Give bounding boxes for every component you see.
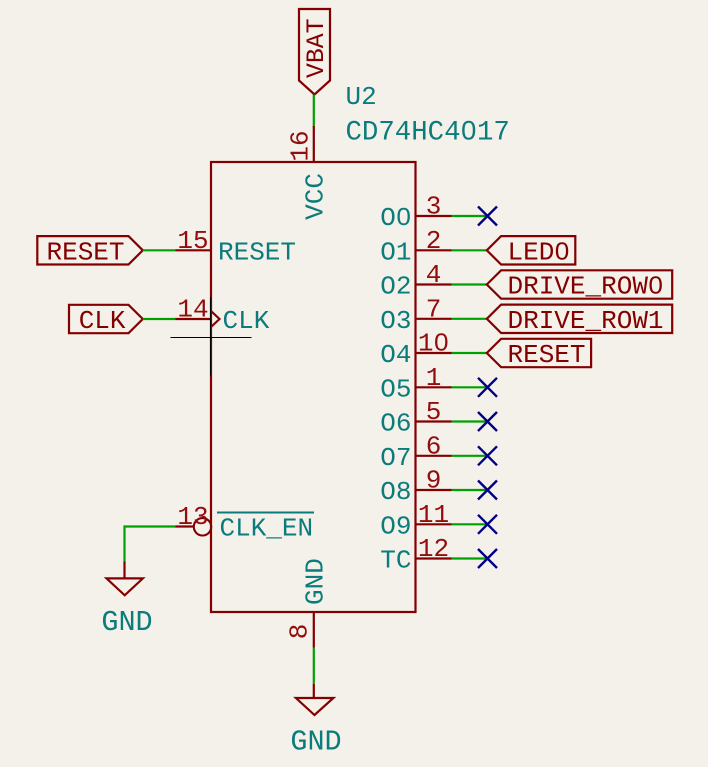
svg-text:13: 13 xyxy=(177,502,208,532)
svg-text:16: 16 xyxy=(286,130,316,161)
svg-text:CLK: CLK xyxy=(79,306,126,336)
pin 12 TC xyxy=(380,534,451,576)
wire pin 5 xyxy=(452,420,487,422)
pin 11 O9 xyxy=(380,500,451,542)
wire pin 11 xyxy=(452,523,487,525)
wire pin 9 xyxy=(452,489,487,491)
pin 2 O1 xyxy=(380,226,451,267)
global label RESET (right) xyxy=(487,339,591,370)
wire pin 3 xyxy=(452,215,487,217)
svg-text:O6: O6 xyxy=(380,409,411,439)
svg-text:O7: O7 xyxy=(380,443,411,473)
pin 10 O4 xyxy=(380,329,451,371)
pin 9 O8 xyxy=(380,466,451,508)
svg-text:VCC: VCC xyxy=(300,173,330,220)
svg-text:2: 2 xyxy=(426,226,442,256)
wire pin 7 xyxy=(452,318,487,320)
wire pin 10 xyxy=(452,352,487,354)
ground symbol bottom xyxy=(290,684,341,759)
pin 8 GND xyxy=(285,558,331,647)
wire pin 13 to GND xyxy=(125,527,176,562)
svg-text:GND: GND xyxy=(300,558,330,605)
pin 14 CLK with clock symbol xyxy=(176,295,270,337)
svg-text:5: 5 xyxy=(426,397,442,427)
svg-text:O3: O3 xyxy=(380,306,411,336)
svg-text:GND: GND xyxy=(290,726,341,759)
svg-text:RESET: RESET xyxy=(508,340,586,370)
global label LED0 xyxy=(487,236,576,267)
svg-text:TC: TC xyxy=(380,546,411,576)
pin 16 VCC xyxy=(286,126,331,220)
svg-text:O4: O4 xyxy=(380,340,411,370)
svg-text:3: 3 xyxy=(426,192,442,222)
svg-text:DRIVE_ROW1: DRIVE_ROW1 xyxy=(508,306,664,336)
svg-text:14: 14 xyxy=(177,295,208,325)
pin 15 RESET xyxy=(176,226,297,267)
svg-text:6: 6 xyxy=(426,431,442,461)
wire pin 1 xyxy=(452,386,487,388)
svg-text:9: 9 xyxy=(426,466,442,496)
no-connect pin 9 xyxy=(478,481,497,500)
svg-text:CD74HC4017: CD74HC4017 xyxy=(346,118,510,149)
wire pin 8 to GND xyxy=(313,648,315,685)
ground symbol left xyxy=(101,562,152,640)
svg-text:O2: O2 xyxy=(380,272,411,302)
global label RESET (left) xyxy=(37,236,143,267)
pin 3 O0 xyxy=(380,192,451,234)
no-connect pin 1 xyxy=(478,378,497,397)
pin 13 CLK_EN inverted xyxy=(176,502,315,544)
svg-text:1: 1 xyxy=(426,363,442,393)
svg-text:CLK_EN: CLK_EN xyxy=(220,514,314,544)
no-connect pin 11 xyxy=(478,515,497,534)
wire VBAT to pin 16 xyxy=(313,95,315,128)
pin 1 O5 xyxy=(380,363,451,405)
wire pin 12 xyxy=(452,557,487,559)
IC U2 body xyxy=(211,162,416,612)
wire pin 4 xyxy=(452,283,487,285)
svg-text:RESET: RESET xyxy=(218,237,296,267)
svg-text:O0: O0 xyxy=(380,203,411,233)
global label CLK (left) xyxy=(69,305,143,336)
svg-text:RESET: RESET xyxy=(46,237,124,267)
svg-text:DRIVE_ROW0: DRIVE_ROW0 xyxy=(508,272,664,302)
wire CLK label to pin 14 xyxy=(143,318,176,320)
value CD74HC4017 xyxy=(346,118,510,149)
global label DRIVE_ROW0 xyxy=(487,270,672,301)
no-connect pin 5 xyxy=(478,412,497,431)
pin 5 O6 xyxy=(380,397,451,439)
svg-text:VBAT: VBAT xyxy=(303,18,331,78)
no-connect pin 6 xyxy=(478,446,497,465)
svg-text:U2: U2 xyxy=(346,82,377,112)
svg-text:7: 7 xyxy=(426,294,442,324)
wire pin 6 xyxy=(452,455,487,457)
pin 6 O7 xyxy=(380,431,451,473)
svg-text:CLK: CLK xyxy=(223,306,270,336)
svg-text:O1: O1 xyxy=(380,237,411,267)
svg-text:O9: O9 xyxy=(380,511,411,541)
svg-text:11: 11 xyxy=(418,500,449,530)
global label DRIVE_ROW1 xyxy=(487,305,672,336)
cursor crosshair xyxy=(171,297,252,376)
pin 4 O2 xyxy=(380,260,451,302)
svg-text:15: 15 xyxy=(177,226,208,256)
wire RESET label to pin 15 xyxy=(143,249,176,251)
svg-text:12: 12 xyxy=(418,534,449,564)
no-connect pin 12 xyxy=(478,549,497,568)
svg-text:4: 4 xyxy=(426,260,442,290)
pin 7 O3 xyxy=(380,294,451,336)
no-connect pin 3 xyxy=(478,207,497,226)
power label VBAT xyxy=(299,9,331,95)
svg-text:GND: GND xyxy=(101,606,152,639)
svg-text:10: 10 xyxy=(418,329,449,359)
svg-text:8: 8 xyxy=(285,624,315,640)
svg-text:O5: O5 xyxy=(380,374,411,404)
svg-text:O8: O8 xyxy=(380,477,411,507)
reference U2 xyxy=(346,82,377,112)
wire pin 2 xyxy=(452,249,487,251)
